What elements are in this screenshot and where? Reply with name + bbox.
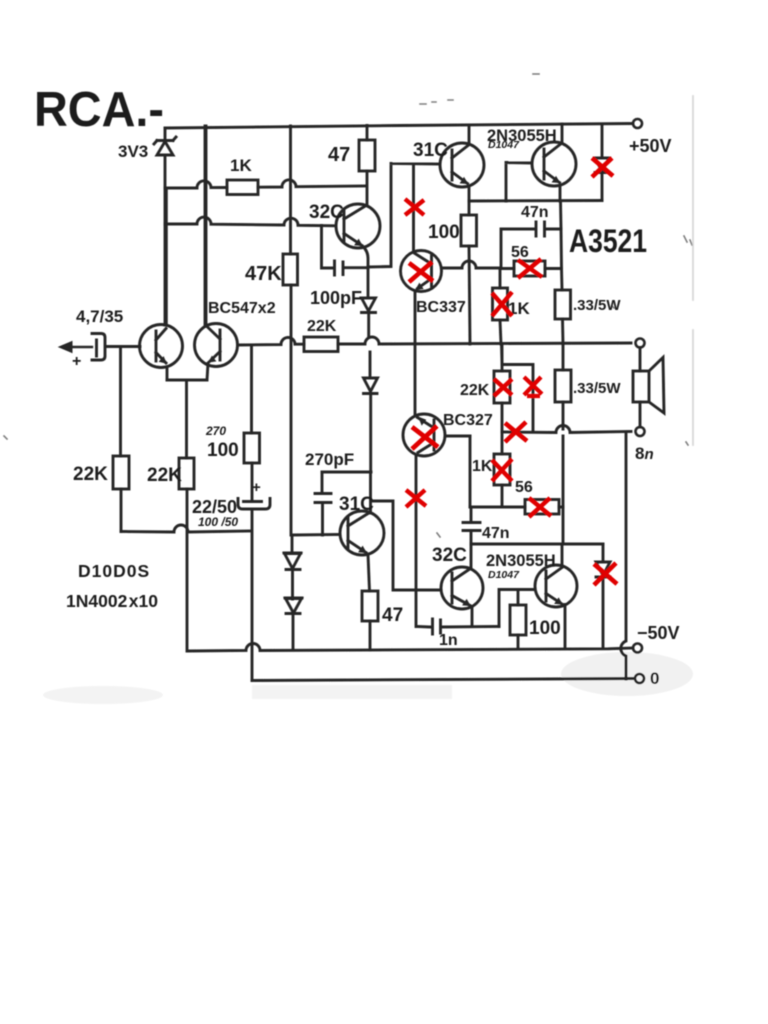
wire 22K tail to -50V rail <box>186 489 189 651</box>
svg-text:22K: 22K <box>307 318 337 335</box>
transistor Q2 BC547 right <box>195 126 238 380</box>
wire 22K upper-right column <box>502 344 533 431</box>
svg-text:47: 47 <box>328 144 350 166</box>
capacitor 1n <box>417 619 499 634</box>
red X on diode top right <box>592 158 613 177</box>
wire -50V rail <box>189 644 633 652</box>
resistor 1K mid <box>493 288 508 320</box>
wire speaker bus y=432 <box>502 426 631 433</box>
speaker <box>633 348 664 428</box>
capacitor 4,7/35 <box>92 334 140 361</box>
svg-text:270: 270 <box>205 424 226 438</box>
wire bus y=507 <box>470 506 563 509</box>
svg-text:1K: 1K <box>230 156 252 175</box>
wire 32C emitter to 2N3055H base <box>499 590 535 627</box>
resistor 100 lower <box>510 605 526 635</box>
wire ground link y=532 <box>121 525 251 532</box>
wire BC327 base column <box>469 436 472 507</box>
svg-text:8n: 8n <box>635 444 654 463</box>
terminal output top <box>636 339 645 348</box>
resistor 1K top <box>227 180 258 195</box>
svg-text:+: + <box>72 353 81 370</box>
terminal -50V <box>633 644 642 653</box>
resistor 22K feedback (horizontal) <box>304 337 338 352</box>
svg-text:22K: 22K <box>460 382 490 399</box>
resistor 47 top <box>359 140 375 171</box>
svg-text:D10D0S: D10D0S <box>78 561 150 581</box>
terminal 0V <box>635 674 644 683</box>
red X on 56 upper <box>518 259 542 278</box>
red X on junction y=432 <box>505 422 527 442</box>
wire 2N3055H base link <box>506 163 532 202</box>
red X on 56 lower <box>529 498 551 517</box>
resistor 22K crossed <box>494 371 510 403</box>
wire feedback bus y=344 <box>238 337 632 345</box>
svg-text:3V3: 3V3 <box>118 142 148 161</box>
resistor 100 feedback <box>244 433 260 463</box>
svg-text:1N4002 x10: 1N4002 x10 <box>66 591 158 611</box>
wire 1K lower leads <box>501 432 504 507</box>
svg-text:A3521: A3521 <box>569 223 647 259</box>
transistor Q4 31C lower <box>293 511 384 591</box>
resistor .33/5W lower <box>555 370 571 402</box>
input arrow terminal <box>71 346 92 348</box>
svg-text:22/50: 22/50 <box>192 497 237 517</box>
wire emitter bus y=201 <box>469 199 602 202</box>
capacitor 47n top <box>501 222 561 268</box>
wire speaker return with hop over -50V <box>621 432 626 679</box>
svg-text:22K: 22K <box>147 465 182 486</box>
red X on diode bottom right <box>594 563 617 585</box>
scan specks <box>4 74 692 537</box>
resistor 100 driver <box>461 215 477 246</box>
diode Da (on VAS column) <box>362 268 376 337</box>
zener diode 3V3 <box>154 128 176 188</box>
capacitor 47n lower <box>463 507 480 569</box>
svg-text:100 /50: 100 /50 <box>198 515 238 529</box>
resistor 47 lower <box>362 591 378 621</box>
transistor Q8 BC327 <box>403 414 470 627</box>
capacitor 270pF <box>315 472 331 535</box>
svg-text:BC547x2: BC547x2 <box>208 300 276 317</box>
svg-text:2N3055H: 2N3055H <box>486 552 556 570</box>
diode Dx2 (crossed out, bottom right) <box>596 544 610 649</box>
svg-text:56: 56 <box>511 244 529 261</box>
svg-text:+: + <box>252 479 261 496</box>
red X on BC337 column <box>405 199 424 215</box>
svg-text:1K: 1K <box>472 458 493 475</box>
svg-text:1n: 1n <box>439 632 458 649</box>
diode D2 of bias chain <box>285 598 302 650</box>
svg-text:D1047: D1047 <box>488 569 520 581</box>
transistor Q5 31C top driver <box>440 125 484 201</box>
svg-text:22K: 22K <box>73 464 108 485</box>
svg-text:47K: 47K <box>245 263 282 285</box>
svg-text:100: 100 <box>529 618 561 639</box>
diode Dx1 (crossed out, top right) <box>595 124 609 201</box>
wire feedback shunt column <box>250 345 253 501</box>
red X on 22K crossed <box>494 379 512 396</box>
wire emitter join bar of BC547 pair <box>167 380 207 458</box>
svg-text:31C: 31C <box>413 140 448 161</box>
transistor Q9 32C lower <box>441 567 483 627</box>
svg-text:BC327: BC327 <box>443 412 493 429</box>
transistor Q1 BC547 left <box>140 188 183 380</box>
wire +50V top rail <box>165 124 633 129</box>
svg-text:47n: 47n <box>521 204 549 221</box>
resistor 1K lower <box>494 454 510 485</box>
svg-text:100pF: 100pF <box>310 288 362 308</box>
transistor Q10 2N3055H lower <box>535 544 577 649</box>
wire 32C emitter to 31C base link <box>368 164 440 268</box>
resistor 47K <box>283 254 298 285</box>
wire 47 leads <box>366 126 369 205</box>
red X on 1K lower <box>492 459 512 481</box>
scan smudge bottom right <box>561 652 693 696</box>
wire BC337 column from 31C base <box>412 164 415 251</box>
svg-text:47: 47 <box>382 605 403 626</box>
red X on 1K mid <box>492 292 512 316</box>
svg-text:D1047: D1047 <box>488 139 520 151</box>
wire x=561 column (emitter to output) <box>561 201 562 269</box>
resistor 56 lower <box>525 500 559 515</box>
svg-text:100: 100 <box>207 440 239 461</box>
wire 47K column from rail <box>289 126 292 535</box>
scan page edge shadow <box>692 96 694 445</box>
svg-text:47n: 47n <box>482 525 510 542</box>
wire output column x=563 lower <box>562 344 565 544</box>
svg-text:100: 100 <box>428 222 460 243</box>
red X small next to 22K <box>524 377 542 396</box>
red X on BC337 <box>409 262 433 282</box>
transistor Q7 2N3055H top <box>532 124 576 201</box>
resistor 22K tail (under pair) <box>179 458 194 489</box>
svg-text:31C: 31C <box>339 494 374 515</box>
svg-text:+50V: +50V <box>629 136 672 156</box>
resistor .33/5W upper <box>555 290 571 319</box>
svg-text:0: 0 <box>650 669 659 688</box>
wire 56 top stubs <box>500 267 561 270</box>
red X on BC327 <box>412 426 438 449</box>
diode Db (on VAS column) <box>364 352 378 472</box>
wire input bias column <box>119 347 122 532</box>
svg-text:56: 56 <box>515 479 533 496</box>
wire left vertical (zener to T1 collector) <box>164 188 167 325</box>
wire 47 lower lead <box>369 621 372 650</box>
svg-text:.33/5W: .33/5W <box>573 297 621 314</box>
wire .33/5W upper leads <box>562 269 564 345</box>
capacitor 22/50 <box>238 499 270 681</box>
wire BC337 base bus y=268 <box>442 261 501 268</box>
svg-text:270pF: 270pF <box>305 450 354 469</box>
wire 1K mid leads <box>500 268 502 364</box>
red X on BC327 emitter line <box>406 490 426 507</box>
wire T2 collector vertical from rail <box>204 126 207 324</box>
wire horizontal bus y=187 (1K row) <box>165 180 366 188</box>
resistor 56 top <box>514 261 545 276</box>
diode D1 of bias chain <box>284 535 301 599</box>
wire 100 leads / bias column <box>469 201 470 344</box>
transistor Q3 32C upper <box>336 204 380 268</box>
scan smudge bottom left <box>43 686 163 704</box>
svg-text:32C: 32C <box>309 202 344 223</box>
wire bus y=544 <box>471 543 603 546</box>
svg-text:32C: 32C <box>432 545 467 566</box>
scan smudge bottom mid <box>252 685 452 699</box>
wire VAS collector junction y=472 <box>322 472 441 590</box>
svg-text:−50V: −50V <box>637 623 680 643</box>
svg-text:4,7/35: 4,7/35 <box>76 307 123 326</box>
terminal +50V <box>633 119 642 128</box>
resistor 22K input bias <box>113 456 129 489</box>
svg-text:RCA.-: RCA.- <box>34 83 164 137</box>
svg-text:BC337: BC337 <box>416 299 466 316</box>
wire 100 lower leads <box>517 590 520 649</box>
transistor Q6 BC337 <box>401 251 442 415</box>
terminal output bottom <box>636 427 645 436</box>
svg-text:.33/5W: .33/5W <box>573 380 621 397</box>
wire 0V rail <box>252 679 634 681</box>
capacitor 100pF <box>322 226 369 276</box>
wire horizontal bus y=223 (to 32C base) <box>165 217 336 226</box>
